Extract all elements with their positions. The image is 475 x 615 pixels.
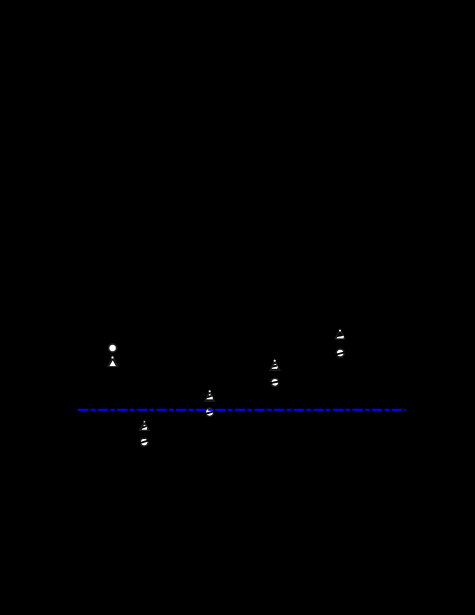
triangle marker T3 [205, 390, 215, 401]
triangle marker T2 [140, 421, 150, 430]
circle marker C3 [204, 408, 216, 416]
circle marker C5 [336, 349, 345, 357]
triangle marker T5 [335, 330, 345, 339]
blue dash-dot horizontal reference line [78, 409, 406, 411]
triangle marker T1 [108, 356, 118, 366]
circle marker C1 [109, 344, 117, 352]
circle marker C2 [139, 437, 150, 446]
circle marker C4 [269, 378, 281, 386]
triangle marker T4 [270, 360, 280, 371]
